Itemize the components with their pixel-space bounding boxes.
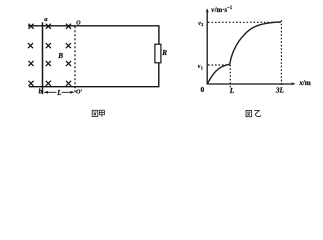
wire: bottom rail	[29, 86, 159, 88]
graph: dotted guide L vertical	[229, 65, 231, 89]
svg-text:O: O	[76, 20, 81, 26]
svg-text:/m: /m	[302, 79, 311, 87]
svg-text:b: b	[39, 87, 43, 95]
svg-text:a: a	[44, 16, 48, 23]
graph: x axis	[207, 83, 294, 85]
graph: dotted guide v2	[208, 21, 281, 23]
resistor R	[155, 44, 161, 63]
wire: right branch above resistor	[158, 26, 160, 44]
svg-text:B: B	[57, 52, 63, 60]
graph: dotted guide 3L vertical	[280, 20, 282, 85]
graph: v-x curve segment 0 to L	[207, 64, 229, 83]
dashed boundary line OO'	[74, 26, 76, 94]
magnetic field region B: 12 x symbols	[28, 24, 71, 86]
wire: top rail	[28, 25, 159, 27]
svg-text:0: 0	[201, 85, 205, 94]
graph: v-x curve segment L to 3L	[230, 22, 281, 64]
svg-text:1: 1	[201, 65, 203, 70]
svg-text:R: R	[161, 49, 167, 57]
conducting rod ab	[42, 22, 44, 94]
caption 图乙 (drawn glyphs)	[246, 111, 261, 117]
svg-text:O′: O′	[76, 88, 82, 95]
caption 图甲 (drawn glyphs)	[92, 110, 104, 117]
svg-text:−1: −1	[227, 6, 233, 11]
graph: dotted guide v1 horizontal	[208, 64, 230, 66]
svg-text:L: L	[56, 89, 61, 97]
svg-text:2: 2	[201, 22, 203, 27]
svg-text:3L: 3L	[275, 86, 285, 95]
wire: right branch below resistor	[158, 63, 160, 87]
svg-text:/m·s: /m·s	[214, 7, 228, 14]
graph: y axis	[206, 8, 296, 85]
svg-text:L: L	[229, 87, 235, 95]
dimension arrow L between rod and OO'	[44, 91, 74, 94]
